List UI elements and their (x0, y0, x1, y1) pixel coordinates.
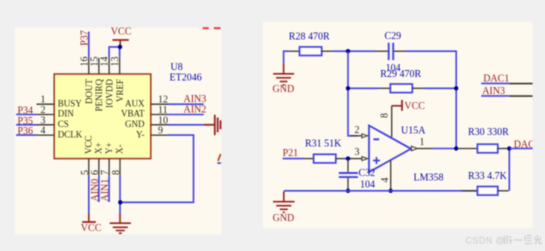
svg-text:VCC: VCC (111, 27, 132, 38)
capacitor C32 (347, 159, 349, 172)
svg-text:9: 9 (158, 126, 163, 137)
svg-text:1: 1 (420, 137, 425, 148)
wire C29 right to right vertical (405, 51, 456, 148)
svg-text:VREF: VREF (115, 79, 125, 102)
resistor R31 (304, 158, 314, 160)
op-amp pin 1 output (411, 146, 417, 151)
wire AIN0 (98, 176, 100, 202)
red dashed selection remnant (203, 27, 209, 29)
svg-text:R30 330R: R30 330R (468, 127, 509, 138)
pin 9 Y- (151, 134, 168, 136)
wire R28 to junction to C29 (332, 50, 376, 52)
cut-off label fragment at right edge (218, 154, 221, 161)
svg-text:CS: CS (58, 119, 69, 129)
svg-text:VCC: VCC (84, 135, 94, 154)
svg-text:LM358: LM358 (414, 172, 444, 183)
svg-text:14: 14 (100, 57, 111, 67)
chip U8 body (54, 74, 151, 159)
pin 1 BUSY (37, 103, 55, 105)
一 (515, 239, 523, 241)
svg-text:VCC: VCC (81, 223, 102, 234)
svg-text:GND: GND (125, 119, 145, 129)
svg-text:GND: GND (273, 84, 295, 95)
ground symbol GND left schematic (110, 214, 131, 234)
svg-text:C29: C29 (385, 31, 402, 42)
svg-text:7: 7 (100, 170, 111, 175)
svg-text:IOVDD: IOVDD (104, 79, 114, 108)
svg-text:DCLK: DCLK (58, 129, 83, 139)
svg-text:DIN: DIN (58, 109, 74, 119)
wire pin 9 to X- node (120, 135, 193, 202)
svg-text:ET2046: ET2046 (170, 73, 202, 84)
svg-text:4: 4 (380, 178, 391, 183)
svg-text:R28 470R: R28 470R (289, 32, 330, 43)
svg-text:AIN1: AIN1 (100, 179, 111, 202)
pin 16 DOUT (88, 58, 90, 74)
svg-text:13: 13 (110, 56, 121, 66)
svg-text:Y+: Y+ (104, 142, 114, 154)
svg-text:AIN2: AIN2 (184, 105, 207, 116)
svg-text:Y-: Y- (136, 129, 145, 139)
svg-text:VBAT: VBAT (121, 109, 145, 119)
watermark CSDN (466, 235, 506, 245)
junction pin 4 (389, 189, 393, 193)
left schematic sheet background (15, 28, 222, 235)
pin 2 DIN (37, 114, 55, 116)
svg-text:104: 104 (360, 180, 375, 191)
svg-text:P36: P36 (18, 126, 34, 137)
junction DAC node (507, 146, 511, 150)
minus sign (373, 138, 379, 140)
junction pin 3 node (346, 156, 350, 160)
svg-text:PENIRQ: PENIRQ (94, 79, 104, 112)
svg-text:VCC: VCC (404, 101, 425, 112)
wire left vertical (feedback to pin 2) (348, 51, 357, 136)
wire AIN1 (108, 176, 110, 202)
watermark chinese glyphs approximation (505, 235, 542, 244)
ground symbol GND (R28) (273, 63, 294, 85)
wire P34 (16, 114, 36, 116)
wire pin8 down to ground (119, 176, 121, 214)
ground symbol GND (P21) (273, 191, 295, 212)
junction R29 left (346, 86, 350, 90)
resistor R29 (348, 87, 380, 89)
svg-text:CSDN @: CSDN @ (466, 235, 506, 245)
pin 4 DCLK (37, 134, 55, 136)
wire pin10 to ground (168, 124, 204, 126)
power port VCC (op-amp) (392, 105, 402, 107)
bottom wire GND to R33 (284, 190, 478, 192)
pin 10 GND (151, 124, 168, 126)
pin 12 AUX (151, 103, 168, 105)
wire P37 (88, 32, 90, 58)
op-amp pin 4 (390, 161, 392, 191)
svg-text:P37: P37 (79, 30, 90, 46)
svg-text:X-: X- (114, 145, 124, 155)
svg-text:BUSY: BUSY (58, 98, 83, 108)
pin 11 VBAT (151, 114, 168, 116)
pin 6 X+ (98, 159, 100, 176)
道 (525, 236, 533, 244)
wire P35 (16, 124, 36, 126)
op-amp pin 3 (348, 158, 362, 160)
wire DAC to edge (509, 148, 532, 150)
junction C32 bottom (346, 189, 350, 193)
svg-text:R31 51K: R31 51K (305, 139, 342, 150)
op-amp U15A triangle (369, 126, 411, 173)
svg-text:R29 470R: R29 470R (380, 69, 421, 80)
junction output (454, 146, 458, 150)
pin 13 VREF (119, 58, 121, 74)
resistor R33 (462, 190, 478, 192)
power port VCC bottom (88, 214, 90, 222)
op-amp pin 2 (350, 135, 361, 137)
svg-text:3: 3 (355, 147, 360, 158)
pin 14 IOVDD (108, 58, 110, 74)
svg-text:4: 4 (41, 126, 46, 137)
wire P36 (16, 134, 36, 136)
svg-text:X+: X+ (94, 142, 104, 154)
svg-text:P21: P21 (283, 148, 299, 159)
svg-text:R33 4.7K: R33 4.7K (468, 171, 508, 182)
svg-text:U8: U8 (171, 62, 183, 73)
svg-text:8: 8 (379, 113, 390, 118)
pin 3 CS (37, 124, 55, 126)
junction top left (346, 49, 350, 53)
pin 8 X- (119, 159, 121, 176)
pin 15 PENIRQ (98, 58, 100, 74)
做 (505, 236, 512, 245)
wire R28 left to GND corner (284, 51, 289, 63)
junction R29 right (454, 86, 458, 90)
wire VCC to pins 13 and 14 (109, 47, 120, 58)
pin 7 Y+ (108, 159, 110, 176)
svg-text:AUX: AUX (125, 98, 145, 108)
wire P21 to R31 (283, 158, 304, 160)
right gray margin covering sheet edge (533, 0, 545, 251)
resistor R28 (289, 50, 300, 52)
wire pin5 to VCC port (88, 176, 90, 214)
junction VCC (118, 45, 122, 49)
plus sign (373, 157, 380, 164)
pin 5 VCC (88, 159, 90, 176)
wire AIN2 (168, 114, 204, 116)
resistor R30 (458, 148, 478, 150)
wire AIN3 (168, 103, 204, 105)
op-amp pin 8 (391, 106, 393, 137)
junction X- node (118, 200, 122, 204)
svg-text:GND: GND (273, 213, 295, 224)
wire R33 up to DAC node (508, 149, 510, 191)
svg-text:8: 8 (111, 170, 122, 175)
svg-text:C32: C32 (359, 168, 376, 179)
svg-text:U15A: U15A (401, 126, 426, 137)
svg-text:DOUT: DOUT (84, 79, 94, 104)
right schematic sheet background (263, 22, 533, 228)
ground bar symbol at pin 10 (204, 115, 221, 135)
capacitor C29 (376, 50, 388, 52)
svg-text:2: 2 (355, 125, 360, 136)
光 (535, 235, 542, 244)
